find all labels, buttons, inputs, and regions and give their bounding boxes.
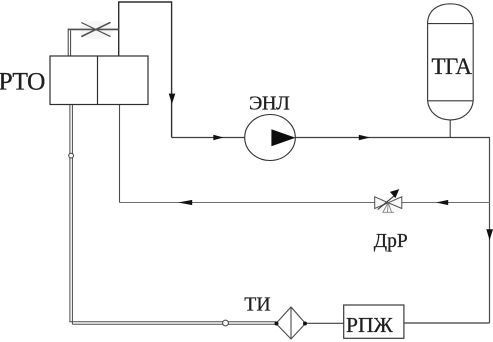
wire: bottom line single segment (right part): [404, 322, 490, 324]
wire: right drop x=489.5: [489, 138, 491, 324]
wire: left return riser x=119.5: [119, 105, 121, 203]
arrow right after pump: [359, 135, 370, 140]
node: dot at diamond right vertex: [303, 322, 307, 326]
node: junction circle on bottom line: [223, 320, 229, 326]
accumulator TGA: bottom separator: [428, 100, 474, 102]
accumulator TGA: top separator: [428, 23, 474, 25]
smudge near DrR valve: [374, 197, 402, 215]
valve DrR: adjusting arrow shaft: [378, 196, 394, 210]
svg-text:ТИ: ТИ: [244, 294, 270, 316]
wire: double pipe from box top to bypass valve: [67, 29, 69, 56]
valve: bypass X symbol: [81, 22, 110, 36]
pump ENL: rotor triangle: [271, 129, 295, 146]
node: dot at diamond left vertex: [275, 322, 279, 326]
sensor TI: vertical diagonal: [290, 307, 292, 339]
sensor TI: diamond: [276, 307, 306, 339]
arrow down on riser drop: [169, 94, 176, 104]
svg-text:РТО: РТО: [0, 67, 45, 96]
pump ENL: circle: [245, 115, 296, 161]
wire: riser from heat-exchanger top to header: [119, 2, 172, 138]
valve DrR: adjusting arrow head: [390, 189, 399, 198]
valve DrR: fan lines below: [382, 203, 394, 213]
svg-text:ДрР: ДрР: [374, 231, 408, 252]
valve DrR: bowtie: [375, 197, 402, 209]
regulator RPZh: box: [344, 305, 404, 338]
wire: accumulator tail: [449, 120, 451, 138]
smudge near bypass valve: [79, 21, 113, 39]
wire: left double down-pipe from box bottom to bottom line: [69, 105, 71, 323]
arrow left on return line (left): [178, 200, 192, 205]
svg-text:ЭНЛ: ЭНЛ: [249, 93, 290, 115]
wire: return line y=202.5: [120, 202, 490, 204]
heat exchanger RTO: box: [50, 56, 148, 105]
svg-text:ТГА: ТГА: [432, 54, 473, 79]
wire: main supply line y=137.5: [172, 137, 490, 139]
arrow left on return line (right): [436, 200, 448, 205]
wire: bottom double line from left corner to diamond: [70, 321, 276, 323]
wire: bypass valve horizontal line: [68, 28, 119, 30]
arrow down on right drop: [486, 229, 493, 240]
wire: bottom line between pump box and diamond: [306, 322, 344, 324]
arrow right before pump: [213, 135, 223, 140]
accumulator TGA: capsule body: [428, 4, 474, 120]
node: junction circle on left down-pipe: [69, 153, 74, 158]
svg-text:РПЖ: РПЖ: [346, 313, 393, 337]
heat exchanger RTO: divider: [97, 56, 99, 105]
